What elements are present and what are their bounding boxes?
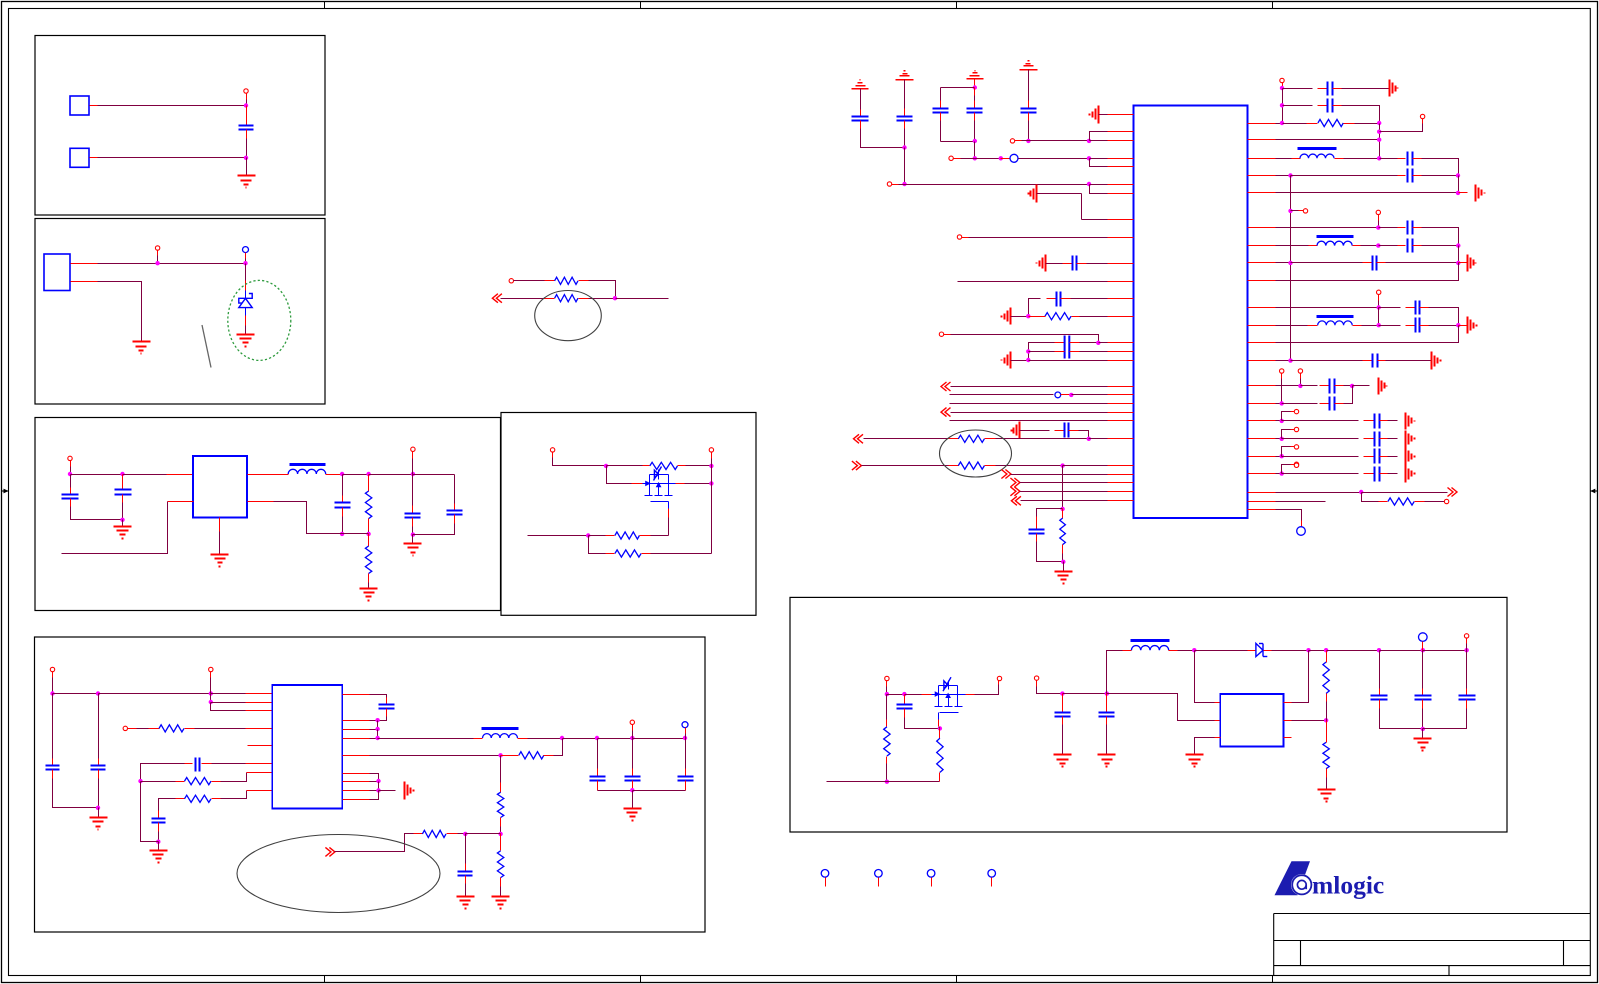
port stub C40 — [1291, 446, 1295, 448]
res R6 stub left — [606, 535, 615, 537]
junction h6 — [1105, 691, 1109, 695]
resistor R24 — [1323, 742, 1329, 768]
wire junction to gnd — [122, 520, 124, 527]
cap C28 stub right — [1413, 158, 1422, 160]
border tick bottom 4 — [1272, 976, 1274, 983]
junction t2 — [902, 182, 906, 186]
junction rr1 — [1280, 419, 1284, 423]
port chevron P34 — [1011, 496, 1021, 505]
res R4 to gnd — [368, 583, 370, 589]
resistor R2 — [555, 295, 578, 302]
capacitor C38 — [1375, 414, 1380, 429]
ground G9 — [150, 851, 168, 863]
wire C7 bottom — [53, 779, 99, 808]
port stub C39 — [1291, 429, 1295, 431]
res R12 stub top — [500, 783, 502, 793]
junction r4 — [1377, 121, 1381, 125]
g15 vert — [1081, 194, 1083, 220]
wire R11 up — [554, 739, 563, 756]
row438 wire a — [1276, 438, 1282, 440]
port P12 — [123, 726, 127, 730]
pin stub U3-L19 — [1108, 403, 1134, 405]
wire P47 stub — [998, 681, 1000, 685]
row114 wire — [1099, 114, 1108, 116]
junction b5-8 — [375, 718, 379, 722]
cap C43 stub bot — [1062, 717, 1064, 725]
port jog P36 — [1380, 124, 1423, 132]
wire P4 right — [514, 280, 545, 282]
junction t3 — [973, 85, 977, 89]
wire P39 down — [1378, 301, 1380, 308]
wire P21 right — [961, 158, 975, 160]
ind L4 stub left — [1308, 325, 1318, 327]
res R4 stub bot — [368, 574, 370, 583]
wire row834 — [466, 833, 501, 835]
wire rail2b — [369, 474, 413, 476]
cap C46 stub top — [1422, 689, 1424, 696]
wire P41 down — [1300, 379, 1302, 386]
wire U1-out to L1 — [274, 474, 289, 476]
capacitor C5 — [405, 514, 421, 518]
res R8 stub right — [185, 728, 195, 730]
junction b4-1 — [604, 464, 608, 468]
loop right down — [974, 121, 976, 142]
row360r wire b — [1291, 360, 1363, 362]
row385 wire c — [1344, 385, 1353, 387]
cap C26 stub left — [1318, 88, 1328, 90]
transistor Q2 — [932, 677, 966, 712]
pin stub U4-1 — [1215, 702, 1221, 704]
pin stub U3-L15 — [1108, 351, 1134, 353]
title block outline — [1274, 914, 1591, 976]
cap C12 stub top — [465, 864, 467, 872]
cap C27 stub left — [1318, 105, 1328, 107]
port P7 — [411, 447, 415, 451]
mos Q2 stub right — [966, 694, 975, 696]
wire P1 to junction — [246, 100, 248, 106]
cap C17 stub top — [904, 109, 906, 117]
wire C1 to junction2 — [246, 139, 248, 158]
row465 wire b — [996, 465, 1063, 467]
cap C42 stub top — [904, 695, 906, 705]
row245 wire b — [1361, 245, 1379, 247]
row175 wire b — [1291, 175, 1398, 177]
res R13 stub left — [414, 833, 423, 835]
res R20 stub left — [1379, 501, 1388, 503]
row325 wire b — [1362, 325, 1379, 327]
port chevron P33 — [1010, 487, 1020, 496]
cap C32 stub right — [1377, 262, 1386, 264]
res R22 stub top — [886, 720, 888, 727]
cap C21 wire l — [1058, 263, 1063, 265]
resistor R4 — [365, 546, 371, 574]
junction r16 — [1456, 261, 1460, 265]
pin stub U3-L26 — [1108, 491, 1134, 493]
wire J1A to node — [98, 105, 247, 107]
cap C14 stub top — [632, 769, 634, 777]
res R17 stub right — [985, 465, 996, 467]
row360r wire c — [1386, 360, 1432, 362]
row501 wire — [1425, 501, 1445, 503]
row473 wire c — [1388, 473, 1398, 475]
resistor R23 — [1323, 662, 1329, 694]
cap C16 stub top — [860, 110, 862, 117]
cap C18 stub top — [940, 101, 942, 109]
wire P9 stub — [711, 453, 713, 459]
inductor L2 — [483, 734, 518, 738]
capacitor C24 — [1065, 423, 1069, 438]
cap C4 down — [342, 517, 344, 534]
loop left down — [940, 88, 942, 101]
row307 wire a — [1276, 307, 1379, 309]
junction b5-3 — [209, 691, 213, 695]
res R14 down — [500, 887, 502, 897]
res R2 stub left — [545, 298, 555, 300]
capacitor C37 — [1330, 397, 1335, 411]
row175 wire a — [1276, 175, 1291, 177]
port jog C41 — [1282, 465, 1291, 474]
wire r1 jog — [370, 695, 387, 698]
pin stub U3-L9 — [1108, 237, 1134, 239]
cap C3 stub top — [122, 475, 124, 490]
row281 wire — [958, 281, 1108, 283]
res R3 to junction — [368, 531, 370, 534]
row316 wire a — [1011, 316, 1029, 318]
row430 wire a — [1020, 430, 1050, 432]
port P13 — [630, 720, 634, 724]
row394 red — [1061, 394, 1072, 396]
border arrow left — [2, 489, 9, 494]
pin stub U3-R21 — [1248, 501, 1276, 503]
pin stub U3-R1 — [1248, 123, 1276, 125]
box1 frame — [35, 36, 325, 216]
pin stub J1A — [90, 105, 98, 107]
wire down to zener — [245, 264, 247, 281]
cap C45 stub bot — [1379, 700, 1381, 709]
cap C34 stub right — [1420, 325, 1429, 327]
row263 wire a — [1046, 263, 1058, 265]
port chevron P28 — [941, 408, 951, 417]
resistor R21 — [937, 738, 943, 772]
cap C22 stub right — [1061, 298, 1071, 300]
cap C21 stub left — [1063, 263, 1073, 265]
port P14 (circle) — [682, 722, 688, 728]
wire P9 down — [711, 459, 713, 466]
junction rr2 — [1280, 437, 1284, 441]
junction b5-15 — [498, 753, 502, 757]
cap C14 top dark — [632, 739, 634, 769]
junction b5-17 — [463, 832, 467, 836]
wire row798 left — [159, 799, 176, 811]
wire P48 stub — [1036, 681, 1038, 687]
cap C10 stub bot — [158, 823, 160, 832]
wire P10 stub — [52, 672, 54, 678]
junction b3-6 — [411, 472, 415, 476]
port P6 — [68, 456, 72, 460]
port P18 (circle) — [927, 870, 935, 878]
row438 wire c — [1089, 438, 1108, 440]
res R11 stub right — [544, 755, 554, 757]
res R24 stub bot — [1326, 769, 1328, 778]
junction r8 — [1288, 173, 1292, 177]
rail650 b — [1195, 650, 1248, 652]
mos Q2 stub left — [922, 694, 932, 696]
capacitor C45 — [1371, 696, 1388, 700]
junction rr3 — [1280, 454, 1284, 458]
junction b3-8 — [366, 532, 370, 536]
port chevron P30 — [852, 461, 862, 470]
row473 wire b — [1282, 473, 1359, 475]
wire out rail b — [563, 738, 598, 740]
cap C14 stub bot — [632, 781, 634, 791]
cap C12 stub bot — [465, 876, 467, 884]
resistor R3 — [365, 491, 371, 519]
resistor R18 — [1060, 518, 1066, 545]
row184 wire — [905, 184, 1090, 186]
wire bus r c — [378, 782, 380, 791]
wire row781 b — [221, 773, 247, 782]
row385 wire b — [1301, 385, 1318, 387]
wire r8 — [370, 790, 379, 792]
res R6 stub right — [640, 535, 651, 537]
junction r12 — [1376, 225, 1380, 229]
diode D2 — [1256, 643, 1267, 656]
junction h8 — [1306, 648, 1310, 652]
cap C13 stub top — [597, 769, 599, 777]
capacitor C22 — [1057, 292, 1061, 307]
zener diode D1 — [239, 294, 252, 308]
cap C5 stub top — [412, 506, 414, 514]
junction t7 — [1087, 139, 1091, 143]
port P24 — [957, 235, 961, 239]
capacitor C12 — [458, 872, 473, 876]
junction b4-3 — [709, 481, 713, 485]
row140 wire b — [1090, 140, 1108, 142]
cap C25 bottom — [1037, 542, 1064, 562]
wire to gnd G8 — [98, 808, 100, 818]
row492 wire a — [1276, 492, 1362, 494]
cap C27 stub right — [1333, 105, 1342, 107]
capacitor C30 — [1408, 221, 1413, 235]
xtal wire l1 — [1047, 342, 1055, 344]
row394 wire a — [950, 394, 1054, 396]
port P36 — [1420, 114, 1424, 118]
row509 wire — [1276, 510, 1302, 521]
capacitor C21 — [1073, 256, 1077, 271]
cap C45 bottom — [1380, 709, 1423, 729]
pin stub U1-gnd — [219, 518, 221, 532]
port P35 — [1280, 78, 1284, 82]
port stub C41 — [1291, 464, 1295, 466]
border tick bottom 3 — [956, 976, 958, 983]
row394 wire b — [1072, 394, 1108, 396]
wire P3 down — [245, 259, 247, 264]
wire to gnd G9 — [158, 842, 160, 851]
row140 wire — [1029, 140, 1090, 142]
junction h7 — [1192, 648, 1196, 652]
wire C1 red bottom — [246, 130, 248, 139]
port P25 — [939, 332, 943, 336]
wire row798 b — [221, 791, 247, 799]
cap C18 stub bot — [940, 113, 942, 121]
capacitor C13 — [590, 777, 606, 781]
res R9 stub right — [212, 781, 221, 783]
power flag PWR2 — [896, 71, 914, 80]
cap C4 stub top — [342, 496, 344, 503]
res R20 stub right — [1415, 501, 1425, 503]
cap C10 stub top — [158, 811, 160, 819]
junction h5 — [1060, 691, 1064, 695]
pin stub U2-8 — [247, 790, 273, 792]
row245 wire c — [1422, 245, 1459, 247]
wire C1 red top — [246, 118, 248, 126]
mos Q1 stub right — [676, 483, 685, 485]
row166 jog — [1090, 159, 1108, 167]
wire R8 right — [195, 728, 246, 730]
capacitor C42 — [897, 705, 913, 709]
ground G15 (rotated) — [1029, 185, 1037, 203]
cap C12 top dark — [465, 834, 467, 864]
row386 wire — [951, 386, 1108, 388]
pad J1A — [70, 96, 89, 115]
pin stub U2-r2 — [343, 720, 370, 722]
ground G7 — [404, 544, 422, 556]
cap C30 stub right — [1413, 227, 1422, 229]
capacitor C41 — [1375, 467, 1380, 482]
wire C11 bottom — [378, 717, 387, 721]
res R21 stub top — [939, 729, 941, 739]
junction b5-16 — [498, 832, 502, 836]
junction r2 — [1280, 103, 1284, 107]
border tick bottom 1 — [324, 976, 326, 983]
wire bus r a — [377, 721, 379, 730]
wire P12 stub — [128, 728, 137, 730]
cap C15 stub top — [685, 769, 687, 777]
resistor R15 — [1045, 313, 1071, 320]
cap C47 bottom — [1423, 709, 1467, 729]
port jog P37 — [1291, 210, 1299, 212]
junction b5-18 — [630, 788, 634, 792]
wire to gnd G31 — [1422, 729, 1424, 739]
rowh wire a — [887, 694, 905, 696]
ind L6 stub right — [1335, 158, 1344, 160]
row456 wire c — [1388, 456, 1398, 458]
wire P11 down — [210, 678, 212, 694]
capacitor C26 — [1328, 82, 1333, 96]
cap C41 stub right — [1380, 473, 1388, 475]
cap C20 stub top — [1028, 101, 1030, 109]
wire cap row left — [141, 764, 185, 782]
reg out sense — [1292, 651, 1309, 703]
wire row702 — [211, 702, 246, 704]
ground G12 — [624, 809, 642, 821]
ind L5 stub left — [1123, 650, 1132, 652]
pin stub U3-R14 — [1248, 385, 1276, 387]
mos Q1 stub left — [632, 483, 643, 485]
row491 wire — [1020, 491, 1108, 493]
row342 wire b — [1099, 342, 1108, 344]
port P47 — [997, 676, 1001, 680]
junction r7 — [1377, 156, 1381, 160]
junction t17 — [1060, 463, 1064, 467]
port chevron P26 — [941, 382, 951, 391]
capacitor C15 — [678, 777, 694, 781]
ind L1 stub right — [326, 474, 343, 476]
res R1 stub left — [545, 280, 555, 282]
junction b5-7 — [156, 840, 160, 844]
cap C47 stub bot — [1466, 700, 1468, 709]
wire J1B to node — [98, 157, 247, 159]
pin stub U3-R4 — [1248, 175, 1276, 177]
row158r wire c — [1422, 159, 1459, 176]
junction t5 — [973, 156, 977, 160]
junction r10 — [1456, 191, 1460, 195]
border tick top 3 — [956, 2, 958, 9]
junction rr4 — [1280, 471, 1284, 475]
pin stub U2-r1 — [343, 694, 370, 696]
capacitor C47 — [1459, 696, 1476, 700]
res R19 stub left — [1307, 123, 1318, 125]
rail650 f — [1380, 650, 1423, 652]
cap C37 stub left — [1320, 403, 1330, 405]
res R14 stub top — [500, 834, 502, 851]
capacitor C8 — [91, 766, 106, 770]
port P22 (circle) — [1010, 154, 1018, 162]
wire gnd right link — [379, 790, 396, 792]
zener D1 lead top — [245, 291, 247, 299]
res R1 stub right — [579, 280, 589, 282]
row158r wire a — [1276, 158, 1292, 160]
row403 corner — [1344, 386, 1353, 404]
row307 red — [1379, 307, 1401, 309]
stray mark (gray line) — [202, 325, 211, 368]
pin stub U3-L7 — [1108, 193, 1134, 195]
row351 wire b — [1080, 351, 1108, 353]
row325 red b — [1459, 325, 1468, 327]
junction h10 — [1377, 648, 1381, 652]
port P40 — [1280, 369, 1284, 373]
cap C46 stub bot — [1422, 700, 1424, 709]
row360 wire a — [1011, 360, 1029, 362]
resistor R16 — [958, 435, 984, 442]
pin stub J1B — [90, 157, 98, 159]
regulator U4 — [1220, 694, 1283, 747]
pin stub U3-L18 — [1108, 394, 1134, 396]
ground G11 — [492, 897, 510, 909]
ground G31 — [1414, 739, 1432, 751]
loop left down b — [940, 121, 942, 142]
cap C7 top dark — [52, 694, 54, 759]
junction mid — [613, 296, 617, 300]
pin stub U3-R19 — [1248, 473, 1276, 475]
pin stub U3-L16 — [1108, 360, 1134, 362]
port P4 — [509, 279, 513, 283]
row360r wire a — [1276, 360, 1291, 362]
cap C42 stub bot — [904, 709, 906, 718]
capacitor C25 — [1029, 530, 1045, 534]
row325 wire a — [1276, 325, 1308, 327]
wire P38 down — [1378, 221, 1380, 228]
cluster2 vert — [1458, 246, 1460, 263]
capacitor C18 — [933, 109, 949, 113]
row158 red — [1001, 158, 1011, 160]
cap C42 bottom — [905, 718, 940, 729]
res R18 stub top — [1062, 509, 1064, 519]
pin stub U3-R7 — [1248, 245, 1276, 247]
row298 corner — [1029, 299, 1041, 317]
wire P16 stub — [825, 878, 827, 887]
row123 wire c — [1355, 123, 1380, 125]
